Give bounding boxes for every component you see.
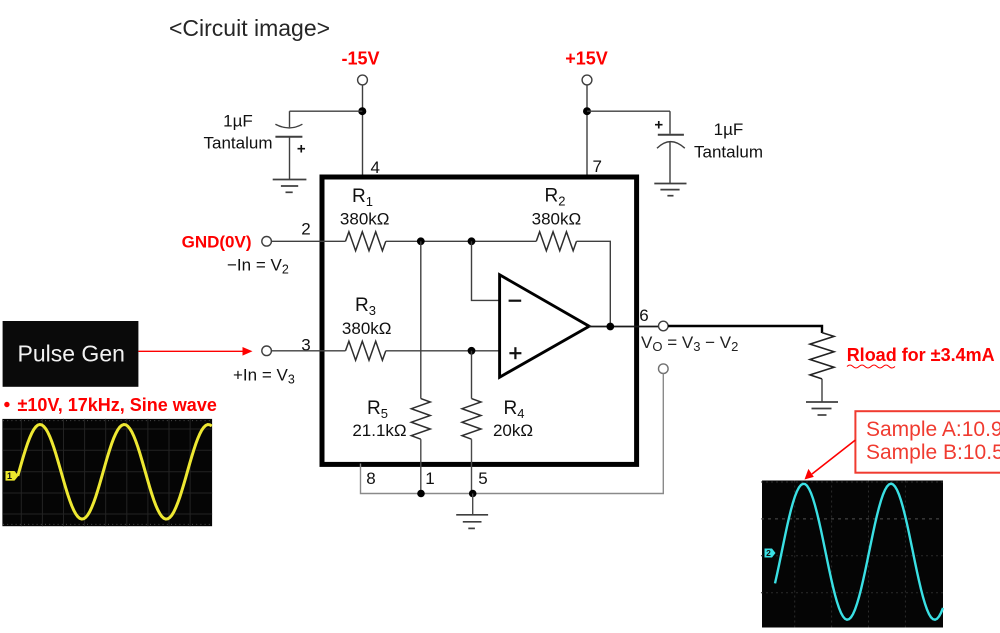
label input signal: [4, 402, 9, 407]
resistor R4: [462, 399, 481, 440]
wire -In node down to R5: [420, 241, 422, 398]
op-amp U1: [500, 275, 590, 377]
terminal output: [659, 321, 669, 331]
resistor R2: [536, 232, 576, 251]
svg-text:R4: R4: [504, 398, 525, 421]
resistor R3: [346, 341, 386, 360]
svg-text:3: 3: [301, 336, 310, 355]
svg-text:380kΩ: 380kΩ: [342, 319, 392, 338]
junction pin5 return: [469, 490, 477, 498]
svg-text:Pulse Gen: Pulse Gen: [18, 341, 125, 367]
svg-text:R5: R5: [367, 398, 388, 421]
svg-text:+: +: [297, 141, 306, 158]
wire +15V to pin 7: [586, 85, 588, 175]
wire pin5 to ground: [472, 494, 474, 515]
junction node -In branch: [468, 237, 476, 245]
op-amp plus sign: [509, 347, 521, 359]
svg-text:Tantalum: Tantalum: [694, 143, 763, 162]
terminal pin 3: [262, 346, 272, 356]
wire -In node to op-amp minus: [472, 241, 500, 300]
svg-text:4: 4: [371, 158, 380, 177]
IC package box U1: [322, 177, 637, 464]
capacitor C1 1uF tantalum: [275, 111, 306, 179]
wire R4 to pin5: [471, 439, 473, 493]
junction node +In / R4: [468, 347, 476, 355]
oscilloscope output screen: [761, 481, 943, 628]
svg-text:5: 5: [478, 469, 487, 488]
capacitor C2 1uF tantalum: [654, 111, 684, 183]
svg-text:1µF: 1µF: [223, 112, 253, 131]
wire pin2 to R1: [271, 240, 345, 242]
channel 1 marker: [6, 471, 19, 481]
pulse generator box: [3, 321, 139, 387]
svg-text:2: 2: [301, 220, 310, 239]
junction node -In / R5: [417, 237, 425, 245]
resistor R1: [346, 232, 386, 251]
svg-text:1: 1: [425, 469, 434, 488]
svg-text:±10V, 17kHz, Sine wave: ±10V, 17kHz, Sine wave: [18, 395, 217, 415]
svg-text:Tantalum: Tantalum: [204, 134, 273, 153]
svg-text:+In = V3: +In = V3: [233, 366, 295, 387]
ground Rload: [806, 402, 838, 415]
svg-text:−In = V2: −In = V2: [227, 256, 289, 277]
terminal -15V: [358, 75, 368, 85]
wire R2 to output node: [577, 241, 611, 326]
arrow callout to waveform: [805, 440, 856, 480]
svg-text:1µF: 1µF: [714, 120, 744, 139]
junction output node: [606, 323, 614, 331]
terminal +15V: [582, 75, 592, 85]
wire +15V rail to C2: [587, 110, 670, 112]
arrow pulse gen to pin 3: [138, 347, 252, 356]
wire pin3 to R3: [271, 350, 345, 352]
svg-text:<Circuit image>: <Circuit image>: [169, 15, 330, 41]
svg-text:Sample B:10.5: Sample B:10.5: [866, 441, 1000, 464]
svg-text:R1: R1: [352, 186, 373, 209]
wire output to Rload: [668, 326, 822, 333]
svg-text:-15V: -15V: [341, 49, 379, 69]
ground main: [456, 515, 488, 529]
svg-text:R3: R3: [355, 295, 376, 318]
wire R3 to op-amp plus: [386, 350, 500, 352]
terminal output sense: [659, 364, 669, 374]
resistor Rload: [810, 333, 834, 379]
wire op-amp output to terminal: [589, 326, 659, 328]
junction -15V rail: [358, 107, 366, 115]
terminal pin 2: [262, 237, 272, 247]
svg-text:+: +: [654, 117, 663, 134]
wire +In node down to R4: [471, 351, 473, 399]
wire -15V rail to C1: [290, 110, 363, 112]
waveform channel 2: [775, 484, 943, 620]
svg-text:21.1kΩ: 21.1kΩ: [352, 421, 406, 440]
ground C2: [654, 184, 686, 196]
svg-text:1: 1: [7, 471, 12, 481]
svg-text:6: 6: [639, 306, 648, 325]
junction pin1 return: [417, 490, 425, 498]
svg-text:8: 8: [366, 469, 375, 488]
wire output sense return: [361, 374, 664, 494]
oscilloscope input screen: [2, 419, 212, 526]
svg-text:20kΩ: 20kΩ: [493, 421, 533, 440]
ground C1: [273, 180, 307, 193]
wire Rload to ground: [821, 379, 823, 402]
svg-text:VO = V3 − V2: VO = V3 − V2: [641, 333, 738, 354]
callout box sample values: [855, 411, 1000, 473]
squiggle under Rload: [847, 365, 895, 368]
svg-text:R2: R2: [545, 186, 566, 209]
svg-text:+15V: +15V: [565, 49, 608, 69]
wire R1 to R2: [386, 240, 537, 242]
channel 2 marker: [765, 549, 776, 558]
wire -15V to pin 4: [362, 85, 364, 175]
resistor R5: [411, 399, 430, 440]
svg-text:2: 2: [766, 548, 771, 558]
wire R5 to pin1: [420, 439, 422, 493]
svg-text:380kΩ: 380kΩ: [532, 209, 582, 228]
svg-text:380kΩ: 380kΩ: [340, 209, 390, 228]
svg-text:Sample A:10.9: Sample A:10.9: [866, 418, 1000, 441]
waveform channel 1: [18, 425, 212, 520]
op-amp minus sign: [509, 300, 522, 302]
junction +15V rail: [583, 107, 591, 115]
svg-text:Rload for ±3.4mA: Rload for ±3.4mA: [847, 345, 995, 365]
svg-text:GND(0V): GND(0V): [182, 233, 252, 252]
scope1 edge ticks: [3, 421, 212, 525]
svg-text:7: 7: [593, 157, 602, 176]
